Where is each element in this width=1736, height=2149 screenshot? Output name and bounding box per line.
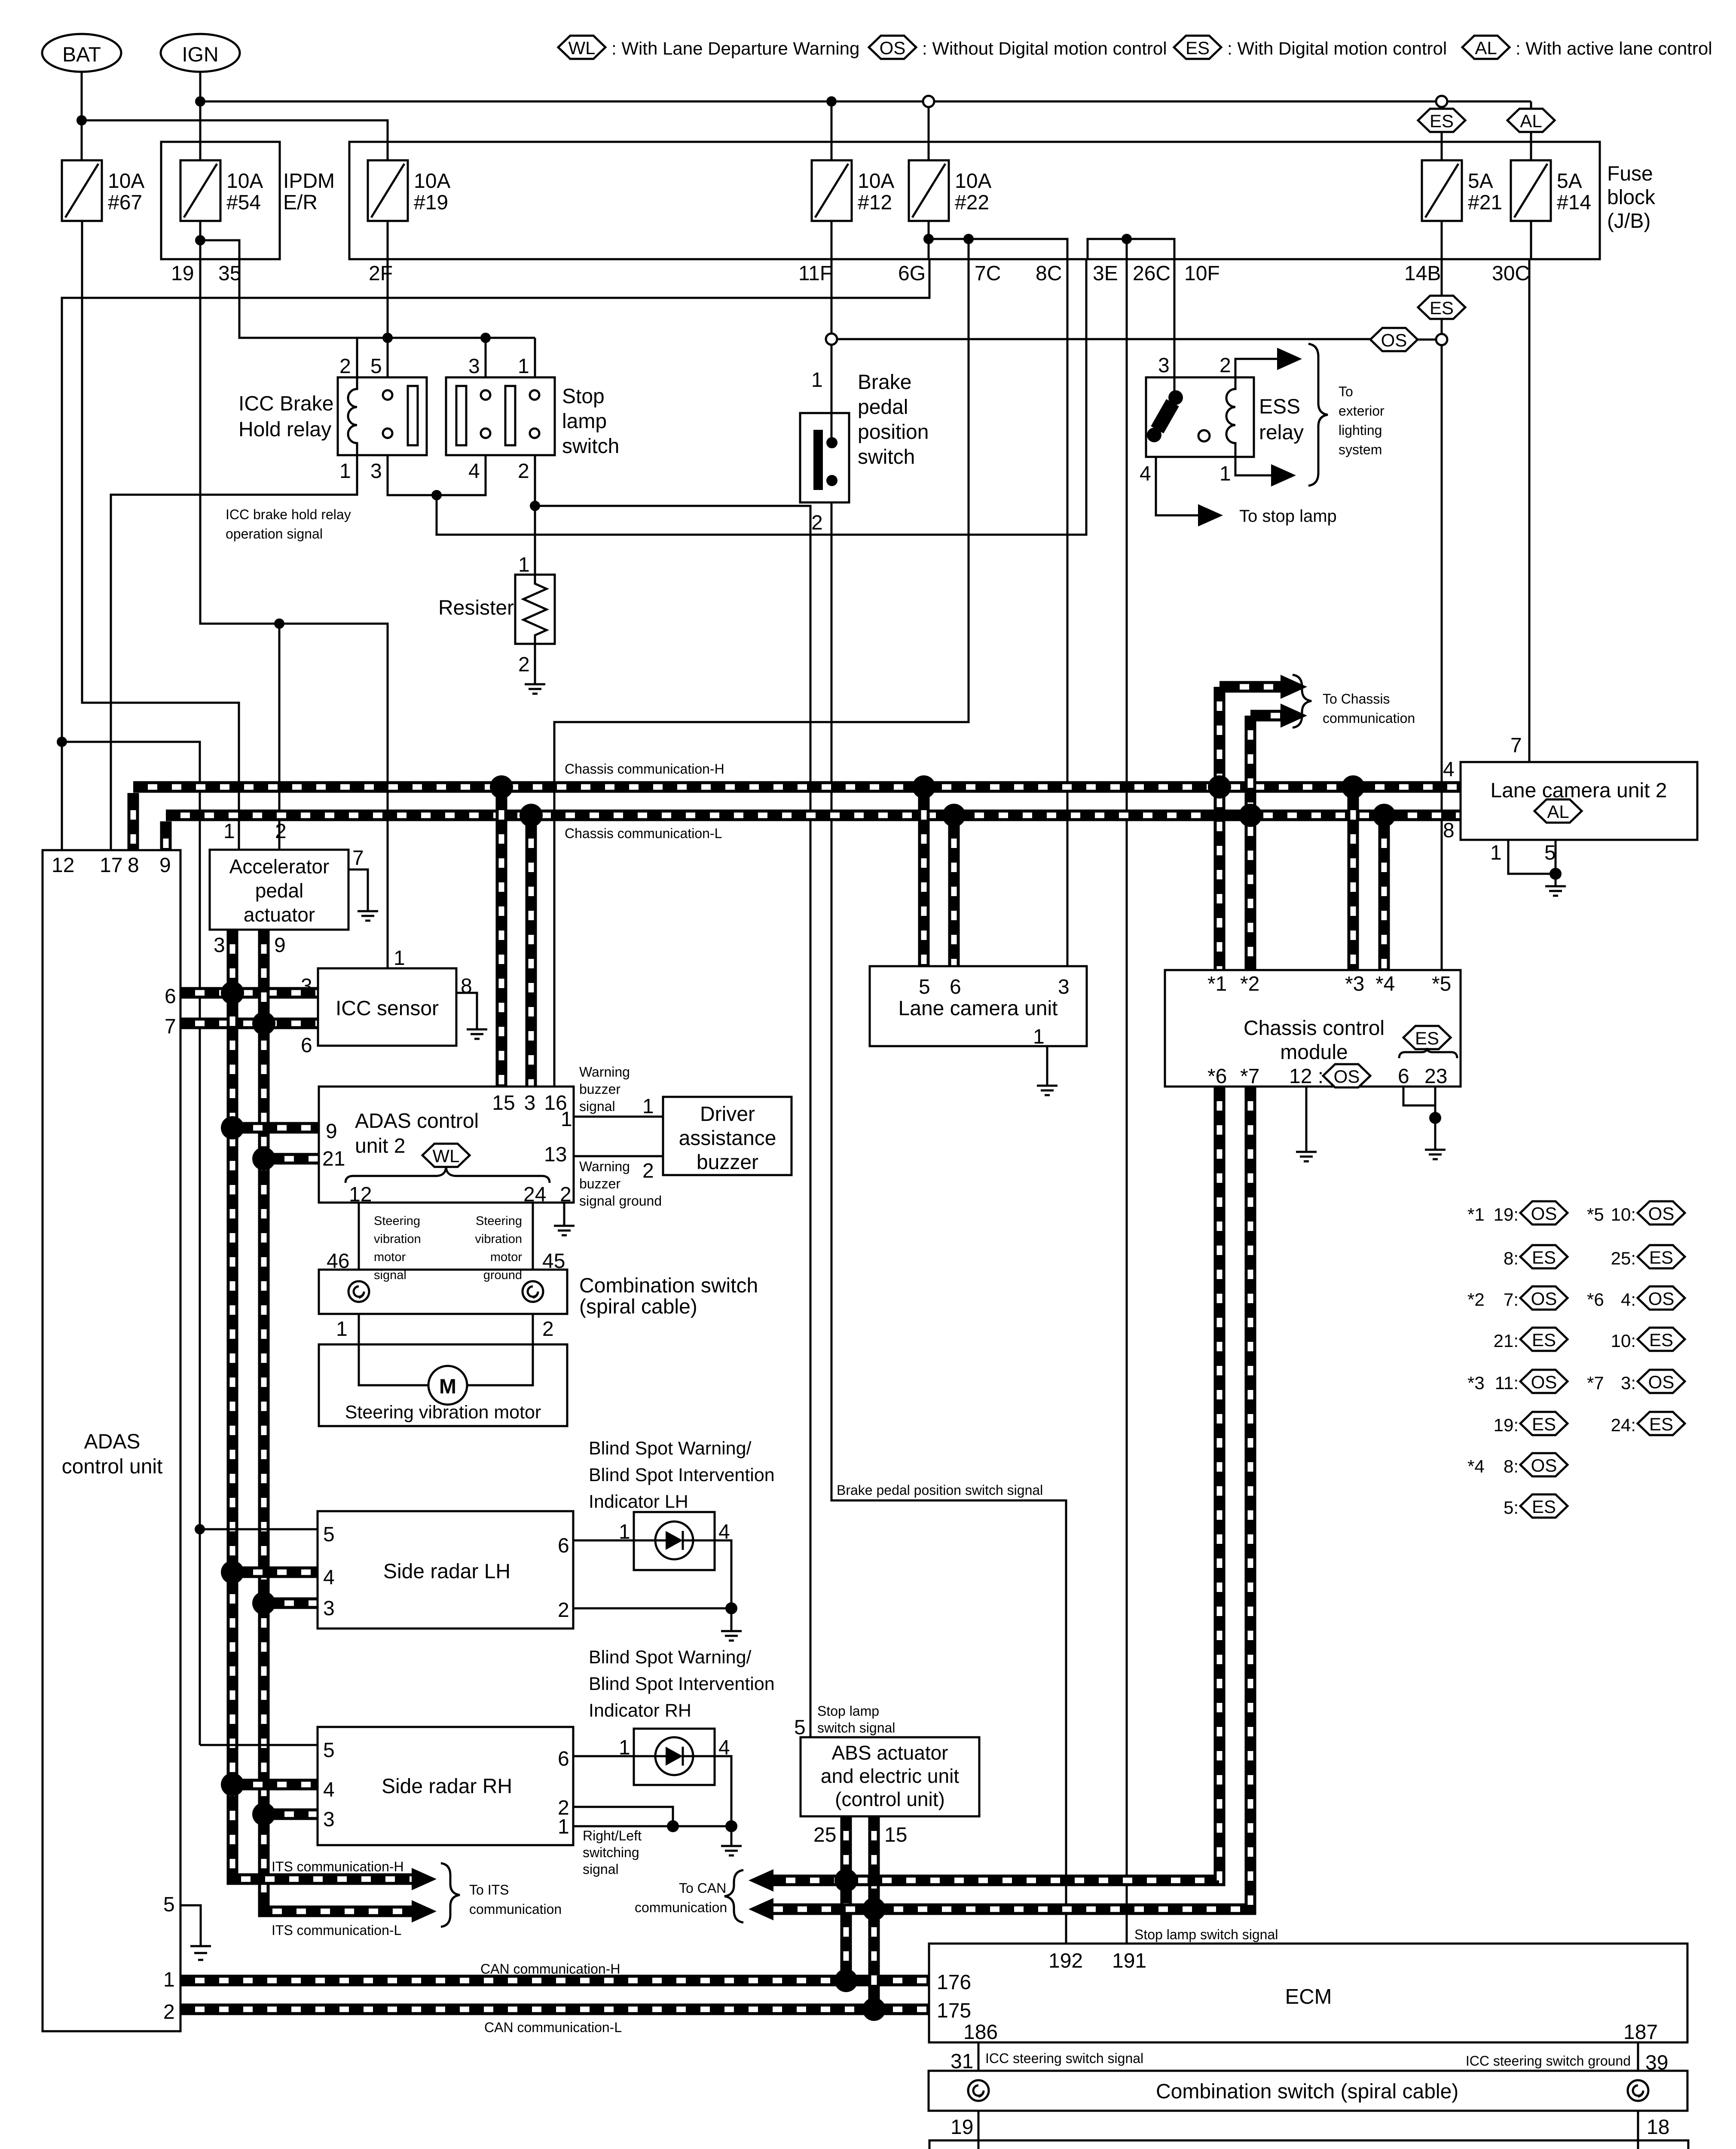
svg-text:position: position [858, 421, 929, 444]
svg-text:1: 1 [619, 1521, 630, 1543]
wire circle to ES hexagon [1441, 107, 1443, 109]
node stop lamp pin3 tap [480, 333, 491, 343]
node IGN bus to fuse 12 [826, 96, 837, 107]
svg-text:*5: *5 [1432, 973, 1451, 995]
wire ES hexagon to circle [1441, 319, 1443, 334]
svg-text:26C: 26C [1133, 262, 1171, 285]
wire CCM pin12 to ground [1305, 1087, 1308, 1152]
dashed stub to ADAS cu2 pin 21 [264, 1153, 319, 1165]
svg-text:1: 1 [558, 1815, 569, 1838]
svg-text:communication: communication [1323, 710, 1415, 726]
wire relay output to 3E [437, 259, 1086, 535]
svg-text:switch: switch [858, 446, 915, 468]
wire stop lamp pin2 down [534, 455, 536, 575]
svg-text:AL: AL [1547, 802, 1569, 822]
wire ESS pin1 to exterior lighting [1235, 457, 1271, 475]
svg-text:Side radar LH: Side radar LH [383, 1560, 510, 1583]
dashed wire CCM pin *7 long [773, 1087, 1250, 1909]
svg-text:: With Digital motion control: : With Digital motion control [1227, 38, 1447, 58]
Side radar LH box [318, 1511, 573, 1629]
svg-text:3: 3 [1058, 976, 1070, 998]
footnote row 5:ES [1504, 1494, 1568, 1518]
spiral symbol comb2 right [1628, 2080, 1648, 2101]
svg-text:Steering: Steering [374, 1214, 420, 1228]
svg-text:ITS communication-H: ITS communication-H [272, 1859, 404, 1874]
stop lamp switch bar B [505, 386, 515, 445]
svg-text:*7: *7 [1240, 1065, 1259, 1088]
ICC steering switch box [929, 2140, 1688, 2149]
node blob CAN-L trunk [862, 1998, 886, 2021]
svg-text:ES: ES [1649, 1330, 1673, 1350]
node blob ITS-L adas2 pin21 [252, 1147, 275, 1170]
svg-text:Hold relay: Hold relay [238, 418, 331, 441]
svg-text:and electric unit: and electric unit [821, 1765, 959, 1787]
svg-text:*2: *2 [1240, 973, 1259, 995]
Combination switch spiral cable box [319, 1270, 567, 1314]
svg-text:ES: ES [1532, 1414, 1556, 1434]
diode indicator LH [634, 1521, 715, 1559]
svg-text:25: 25 [813, 1824, 836, 1846]
svg-text:6: 6 [558, 1534, 569, 1557]
ECM box [929, 1944, 1687, 2042]
svg-text:8:: 8: [1504, 1248, 1519, 1268]
arrow to CAN communication lower [749, 1898, 773, 1920]
svg-text:Stop lamp: Stop lamp [817, 1703, 879, 1719]
power source BAT [42, 34, 121, 72]
svg-text:21:: 21: [1494, 1331, 1519, 1351]
Lane camera unit 2 box [1461, 762, 1697, 840]
svg-text:2: 2 [339, 355, 351, 378]
wire CCM pin6 join pin23 [1403, 1087, 1435, 1105]
svg-text:4: 4 [323, 1779, 335, 1801]
svg-text:vibration: vibration [374, 1232, 421, 1246]
svg-text:10A: 10A [108, 170, 144, 193]
indicator LH box [634, 1512, 715, 1570]
node blob ITS-L radar LH pin3 [252, 1592, 275, 1615]
dashed stub radar RH pin4 [232, 1779, 318, 1791]
footnote row 19:ES 24:ES [1494, 1412, 1685, 1435]
wire ECM pin186 down [978, 2042, 980, 2071]
svg-text:6: 6 [165, 985, 176, 1008]
wire to side radar LH pin 5 [200, 1528, 318, 1531]
chassis communication-H dashed line [133, 781, 1461, 793]
wire IGN down to fuse 54 [199, 72, 202, 160]
svg-text:2: 2 [1219, 354, 1231, 377]
svg-text:19:: 19: [1494, 1415, 1519, 1435]
wire ADAS cu2 pin13 to buzzer [574, 1155, 663, 1157]
svg-text:4: 4 [323, 1566, 335, 1589]
wire ES hexagon to fuse 21 [1441, 132, 1443, 160]
svg-text:OS: OS [1531, 1203, 1557, 1224]
CAN communication-L dashed line [180, 2004, 929, 2015]
svg-text:1: 1 [1219, 462, 1231, 485]
svg-text:#21: #21 [1468, 191, 1502, 214]
brace to CAN communication [724, 1870, 743, 1922]
svg-text:To CAN: To CAN [679, 1880, 726, 1896]
dashed stub radar LH pin4 [232, 1567, 318, 1578]
svg-text:OS: OS [1531, 1455, 1557, 1476]
svg-text:5: 5 [163, 1893, 175, 1916]
wire fuse 19 to 2F [387, 221, 389, 259]
svg-text:25:: 25: [1611, 1248, 1636, 1268]
wire 8C to lane camera pin 3 [1067, 259, 1069, 966]
arrow to stop lamp [1198, 504, 1223, 527]
dashed wire APA pin9 ITS-L vertical [258, 930, 270, 1911]
svg-text:10A: 10A [414, 170, 450, 193]
svg-text:1: 1 [223, 820, 235, 843]
svg-text:4: 4 [1140, 462, 1151, 485]
svg-text:BAT: BAT [62, 43, 101, 66]
wire comb2 pin18 down [1637, 2111, 1639, 2149]
svg-text:ES: ES [1415, 1028, 1439, 1048]
svg-text:1: 1 [619, 1736, 630, 1759]
svg-text:24:: 24: [1611, 1415, 1636, 1435]
footnote row *4 8:OS [1467, 1453, 1568, 1476]
wire ADAS cu2 pin24 to spiral cable [532, 1203, 534, 1270]
svg-text:assistance: assistance [679, 1127, 776, 1150]
svg-text:5A: 5A [1557, 170, 1582, 193]
svg-text:1: 1 [339, 460, 351, 483]
svg-text:OS: OS [1334, 1066, 1360, 1087]
dashed wire ADAS pin9 to L [160, 821, 172, 850]
ground lane camera [1037, 1086, 1057, 1095]
wire radar RH pin1 [573, 1825, 731, 1828]
svg-text:10:: 10: [1611, 1204, 1636, 1225]
wire fuse 54 to pins 19 35 [199, 221, 202, 271]
hexagon ES ccm [1403, 1026, 1451, 1049]
wire OS hexagon to circle [1418, 339, 1436, 341]
svg-text:2F: 2F [369, 262, 393, 285]
indicator RH box [634, 1729, 715, 1785]
svg-text:motor: motor [374, 1250, 406, 1264]
svg-text:3: 3 [214, 934, 225, 957]
svg-text:6: 6 [1398, 1065, 1409, 1088]
svg-text:7: 7 [1510, 734, 1522, 757]
svg-text:Steering: Steering [476, 1214, 522, 1228]
svg-text:1: 1 [1033, 1026, 1045, 1048]
node open circle to fuse 22 [923, 96, 934, 107]
svg-text:ES: ES [1186, 38, 1210, 58]
node blob L ccm2 [1239, 804, 1262, 827]
svg-text:#54: #54 [226, 191, 261, 214]
wire ESS pin2 to exterior lighting [1235, 359, 1277, 377]
wire to ground RH [730, 1826, 733, 1846]
svg-text:14B: 14B [1404, 262, 1441, 285]
spiral symbol comb2 left [968, 2080, 989, 2101]
brace ccm 6 23 [1399, 1048, 1457, 1058]
svg-text:M: M [439, 1375, 456, 1398]
brake pedal switch bar [813, 430, 823, 490]
svg-text:3: 3 [1158, 354, 1170, 377]
svg-text:Driver: Driver [700, 1103, 755, 1126]
node IGN junction [195, 96, 205, 107]
Chassis control module box [1165, 970, 1461, 1087]
node blob ITS-H icc sensor [221, 981, 244, 1004]
node open circle 11F [826, 334, 837, 345]
legend hexagon ES [1174, 36, 1221, 59]
svg-text:ES: ES [1532, 1497, 1556, 1517]
svg-text:signal: signal [583, 1861, 619, 1877]
node 6G line branch [57, 737, 67, 747]
dashed stub radar RH pin3 [264, 1809, 318, 1820]
svg-text:15: 15 [492, 1092, 515, 1114]
svg-text:Chassis communication-H: Chassis communication-H [565, 761, 724, 777]
node blob ITS-L radar RH pin3 [252, 1803, 275, 1826]
stop lamp contact circles B [530, 390, 539, 400]
svg-text:motor: motor [490, 1250, 522, 1264]
svg-text:pedal: pedal [858, 396, 908, 419]
wire to APA pin 2 [278, 624, 281, 850]
svg-text:1: 1 [811, 369, 823, 392]
svg-text:ECM: ECM [1285, 1985, 1332, 2008]
svg-text:Resister: Resister [438, 597, 514, 619]
svg-text:21: 21 [322, 1148, 345, 1170]
node stop lamp output [530, 501, 540, 511]
svg-text:11:: 11: [1495, 1373, 1519, 1393]
svg-text:OS: OS [1648, 1203, 1675, 1224]
svg-text:Blind Spot Intervention: Blind Spot Intervention [589, 1465, 775, 1485]
wire 35 down and relay feed bus [239, 271, 535, 338]
svg-text:(J/B): (J/B) [1607, 210, 1650, 233]
svg-text:control unit: control unit [62, 1455, 163, 1478]
node blob L adas2 [520, 804, 543, 827]
svg-text:#67: #67 [108, 191, 142, 214]
fuse block J/B box [349, 142, 1600, 259]
svg-text:*4: *4 [1375, 973, 1395, 995]
svg-text:To Chassis: To Chassis [1323, 691, 1390, 707]
svg-text:*1: *1 [1207, 973, 1227, 995]
svg-text:1: 1 [163, 1968, 175, 1991]
svg-text:6: 6 [950, 976, 961, 998]
wire coil pin2 drop [356, 338, 358, 377]
svg-text:*3: *3 [1467, 1373, 1485, 1393]
brace to exterior lighting [1308, 344, 1328, 486]
wire stop lamp pin1 drop [534, 338, 536, 377]
node blob H lane camera [912, 775, 935, 799]
svg-text:15: 15 [884, 1824, 907, 1846]
svg-text:5: 5 [323, 1739, 335, 1762]
wire fuse 21 to 14B [1441, 221, 1443, 259]
wire relay coil pin1 to ADAS pin17 [111, 455, 357, 850]
svg-text:WL: WL [568, 38, 596, 58]
svg-text:ES: ES [1532, 1247, 1556, 1267]
svg-text:Combination switch (spiral cab: Combination switch (spiral cable) [1156, 2080, 1458, 2103]
svg-text:lamp: lamp [562, 410, 607, 433]
Side radar RH box [318, 1727, 573, 1845]
spiral symbol right [523, 1281, 543, 1302]
wire 7C to ADAS control unit 2 pin16 [554, 259, 969, 1087]
svg-text:buzzer: buzzer [579, 1081, 620, 1097]
svg-text:10A: 10A [226, 170, 263, 193]
svg-text:Fuse: Fuse [1607, 162, 1653, 185]
wire down to fuse 12 [831, 101, 833, 160]
svg-text:Brake pedal position switch si: Brake pedal position switch signal [837, 1482, 1043, 1498]
dashed wire APA pin3 ITS-H vertical [227, 930, 238, 1879]
svg-text:OS: OS [1531, 1289, 1557, 1309]
svg-text:: With active lane control: : With active lane control [1516, 38, 1712, 58]
svg-text:ICC steering switch ground: ICC steering switch ground [1466, 2053, 1631, 2069]
svg-text:192: 192 [1048, 1950, 1083, 1972]
svg-text:pedal: pedal [255, 879, 304, 902]
svg-text:1: 1 [642, 1095, 654, 1118]
svg-text:IPDM: IPDM [283, 170, 335, 193]
svg-text:*1: *1 [1467, 1204, 1485, 1225]
wire 26C to ECM pin 191 [1126, 259, 1128, 1944]
svg-text:13: 13 [544, 1143, 567, 1166]
svg-text:10A: 10A [955, 170, 991, 193]
wire 26C down [1126, 239, 1128, 259]
svg-text:11F: 11F [798, 262, 832, 285]
svg-text:5: 5 [794, 1716, 806, 1739]
svg-text:communication: communication [635, 1900, 727, 1915]
svg-text:vibration: vibration [475, 1232, 522, 1246]
svg-text:12: 12 [349, 1183, 372, 1206]
svg-text:*3: *3 [1345, 973, 1364, 995]
fuse 5A #21 [1422, 160, 1462, 221]
wire 2F down [387, 259, 389, 338]
legend hexagon AL [1462, 36, 1510, 59]
svg-text:Brake: Brake [858, 371, 911, 394]
ABS actuator and electric unit box [801, 1737, 979, 1816]
dashed arrow ITS-H [232, 1873, 412, 1879]
svg-text:1: 1 [336, 1318, 348, 1341]
dashed wire H to ADAS cu2 pin15 [496, 793, 507, 1087]
ESS contact open circle [1198, 430, 1210, 441]
svg-text:175: 175 [937, 1999, 971, 2022]
svg-text:Chassis communication-L: Chassis communication-L [565, 826, 722, 841]
svg-text:9: 9 [326, 1120, 337, 1143]
wire 14B line to chassis control module pin *5 [1441, 345, 1443, 970]
fuse 5A #14 [1511, 160, 1551, 221]
svg-text:3: 3 [370, 460, 382, 483]
svg-text:1: 1 [561, 1108, 572, 1131]
svg-text:10A: 10A [858, 170, 894, 193]
dashed arrow to chassis communication upper [1219, 681, 1281, 693]
wire ESS pin4 to stop lamp arrow [1156, 457, 1198, 515]
svg-text:IGN: IGN [182, 43, 218, 66]
Lane camera unit box [870, 966, 1087, 1046]
svg-text:OS: OS [880, 38, 906, 58]
hexagon ES fuse 21 [1418, 109, 1465, 132]
ground lane camera 2 [1545, 886, 1566, 896]
svg-text:2: 2 [275, 820, 287, 843]
relay contact bar [408, 386, 418, 445]
svg-text:19: 19 [951, 2116, 973, 2139]
svg-text:5:: 5: [1504, 1497, 1519, 1518]
ADAS control unit box [43, 850, 180, 2031]
svg-text:Lane camera unit: Lane camera unit [899, 997, 1058, 1020]
svg-text:24: 24 [523, 1183, 546, 1206]
wire IGN bus to AL hexagon [1530, 101, 1532, 109]
svg-text:#22: #22 [955, 191, 989, 214]
dashed arrow ITS-L [264, 1905, 412, 1911]
svg-text:7C: 7C [975, 262, 1001, 285]
svg-text:5A: 5A [1468, 170, 1493, 193]
svg-text:Warning: Warning [579, 1064, 630, 1080]
svg-text:187: 187 [1623, 2021, 1658, 2044]
svg-text:switching: switching [583, 1845, 639, 1860]
svg-text:2: 2 [542, 1318, 554, 1341]
node lane camera 2 ground join [1550, 868, 1562, 880]
dashed stub radar LH pin3 [264, 1598, 318, 1609]
node blob ITS-H adas2 pin9 [221, 1116, 244, 1139]
ground ADAS cu2 [554, 1226, 575, 1235]
node blob ITS-L icc sensor [252, 1012, 275, 1035]
svg-text:19:: 19: [1494, 1204, 1519, 1225]
svg-text:ICC steering switch signal: ICC steering switch signal [985, 2051, 1143, 2066]
svg-text:#14: #14 [1557, 191, 1591, 214]
svg-text:18: 18 [1647, 2116, 1669, 2139]
Driver assistance buzzer box [663, 1097, 792, 1175]
svg-text:module: module [1280, 1041, 1348, 1064]
wire BAT branch to accelerator pedal actuator pin 1 [82, 221, 239, 850]
dashed wire L to lane camera pin6 [948, 821, 960, 966]
spiral symbol left [348, 1281, 369, 1302]
svg-text:OS: OS [1648, 1372, 1675, 1392]
arrow to CAN communication upper [749, 1869, 773, 1892]
ICC Brake Hold relay box [338, 377, 427, 455]
svg-text:To: To [1339, 384, 1353, 399]
svg-text:buzzer: buzzer [697, 1151, 758, 1174]
wire jb internal 22 to 8C [929, 239, 1067, 259]
wire ADAS cu2 pin2 to ground [563, 1203, 565, 1226]
resistor zigzag [523, 575, 547, 644]
node blob CAN arrows H [834, 1869, 858, 1892]
ESS contact arm [1147, 390, 1183, 442]
svg-text:switch signal: switch signal [817, 1720, 895, 1736]
wire ADAS pin5 to ground [180, 1905, 201, 1946]
svg-text:*7: *7 [1587, 1373, 1604, 1393]
wire brake pedal pin2 long down [831, 502, 1066, 1944]
dashed wire ADAS pin6 to ICC sensor pin3 [180, 987, 318, 999]
arrow to exterior lighting lower [1271, 464, 1296, 487]
svg-text:OS: OS [1648, 1289, 1675, 1309]
node pin19 branch to APA pin 2 [274, 618, 284, 629]
footnote row *1 19:OS *5 10:OS [1467, 1201, 1685, 1225]
footnote row *2 7:OS *6 4:OS [1467, 1286, 1685, 1310]
svg-text:186: 186 [963, 2021, 998, 2044]
svg-text:Combination switch: Combination switch [579, 1274, 758, 1297]
fuse 10A #19 [368, 160, 408, 221]
node relay output [431, 490, 442, 500]
svg-text:CAN communication-H: CAN communication-H [480, 1961, 620, 1977]
legend hexagon OS [869, 36, 916, 59]
node blob H ccm3 [1342, 775, 1365, 799]
node blob L lane camera [942, 804, 966, 827]
brace under WL [345, 1166, 550, 1183]
svg-text:CAN communication-L: CAN communication-L [484, 2020, 622, 2035]
svg-text:block: block [1607, 186, 1656, 209]
wire branch to pin 35 [200, 240, 239, 271]
footnote row 21:ES 10:ES [1494, 1328, 1685, 1351]
svg-text:(control unit): (control unit) [835, 1788, 945, 1810]
svg-text:8: 8 [1443, 819, 1455, 842]
svg-text:ICC Brake: ICC Brake [238, 392, 333, 415]
wire ADAS cu2 pin1 to buzzer [574, 1116, 663, 1118]
svg-text:3: 3 [524, 1092, 536, 1114]
wire OS branch line [837, 338, 1370, 340]
node blob ITS-H radar LH pin4 [221, 1561, 244, 1584]
node RH ground junction [725, 1820, 737, 1832]
legend hexagon WL [558, 36, 605, 59]
wire indicator RH pin4 down [715, 1756, 731, 1826]
node under fuse 54 [195, 235, 205, 245]
footnote row *3 11:OS *7 3:OS [1467, 1370, 1685, 1393]
wire 10F to ESS relay pin 3 [1174, 259, 1176, 377]
ground CCM 12 [1296, 1152, 1317, 1161]
wire ICC sensor pin8 to ground [456, 993, 477, 1029]
wire radar RH pin2 [573, 1807, 673, 1826]
